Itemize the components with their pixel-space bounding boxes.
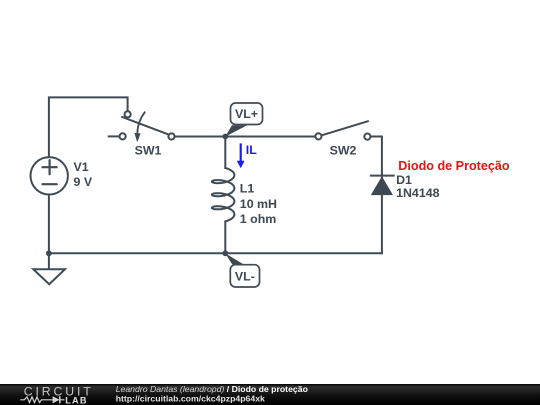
current arrow IL	[240, 143, 242, 161]
svg-text:IL: IL	[246, 143, 257, 157]
node flag VL- box	[230, 265, 259, 287]
voltage source V1	[31, 157, 68, 194]
ground	[33, 269, 65, 284]
node flag VL+ pointer	[225, 125, 247, 136]
node flag VL- pointer	[225, 253, 243, 264]
footer logo diode symbol	[53, 396, 60, 403]
svg-text:LAB: LAB	[65, 395, 87, 405]
wire: V1 top to SW1 common	[49, 97, 128, 157]
svg-text:1 ohm: 1 ohm	[240, 212, 276, 226]
wire: VL+ node down to L1	[224, 137, 226, 169]
SW1 arrow head	[134, 133, 140, 142]
svg-text:VL+: VL+	[235, 107, 258, 121]
wire: SW1 to SW2 through VL+ node	[175, 136, 315, 138]
footer logo resistor zigzag	[20, 397, 64, 403]
wire: L1 bottom to VL- node	[224, 221, 226, 253]
switch SW2	[318, 121, 368, 136]
svg-text:L1: L1	[240, 181, 255, 195]
node junction ground	[46, 250, 52, 256]
svg-text:1N4148: 1N4148	[396, 186, 440, 200]
wire: bottom rail	[49, 252, 382, 254]
svg-text:SW2: SW2	[330, 143, 357, 157]
footer bar	[0, 384, 540, 405]
wire: V1 bottom to ground junction	[48, 195, 50, 269]
svg-text:http://circuitlab.com/ckc4pzp4: http://circuitlab.com/ckc4pzp4p64xk	[116, 394, 265, 404]
svg-text:Diodo de Proteção: Diodo de Proteção	[398, 159, 510, 173]
node junction VL+	[222, 134, 228, 140]
svg-text:10 mH: 10 mH	[240, 197, 277, 211]
svg-text:V1: V1	[74, 160, 89, 174]
node flag VL+ box	[231, 103, 263, 125]
svg-text:VL-: VL-	[235, 270, 255, 284]
svg-text:D1: D1	[396, 173, 412, 187]
node junction VL-	[222, 250, 228, 256]
diode D1 cathode bar	[371, 175, 394, 177]
wire: SW2 to D1 branch	[371, 137, 382, 254]
switch SW1	[122, 117, 171, 136]
inductor L1	[212, 168, 235, 221]
svg-text:9 V: 9 V	[74, 175, 93, 189]
svg-text:SW1: SW1	[135, 143, 162, 157]
diode D1 triangle	[371, 176, 393, 195]
